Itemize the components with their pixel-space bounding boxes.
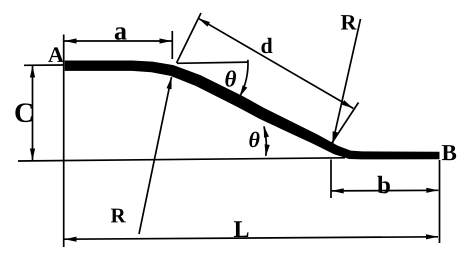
svg-text:C: C	[14, 98, 34, 129]
arrowhead: d upper-left	[198, 18, 210, 26]
extension line: right end of d (perpendicular tick)	[332, 103, 359, 144]
svg-text:A: A	[48, 42, 64, 67]
svg-text:L: L	[233, 217, 249, 243]
extension line: right vertical at curve end B	[439, 160, 441, 243]
svg-text:a: a	[114, 16, 127, 45]
arrowhead: R upper leader tip	[333, 131, 338, 143]
arrowhead: C top	[30, 66, 35, 78]
angle reference line for upper theta	[177, 62, 248, 63]
arrowhead: d lower-right	[342, 100, 354, 108]
dimension line b (horizontal)	[332, 189, 439, 192]
leader line R (lower bend radius)	[139, 77, 172, 234]
dimension line C (vertical)	[32, 66, 34, 161]
extension line: left end of b	[330, 160, 332, 199]
svg-text:R: R	[341, 10, 358, 35]
arrowhead: lower theta arc bottom	[265, 144, 270, 156]
arrowhead: L left	[65, 237, 77, 242]
svg-text:b: b	[377, 172, 391, 199]
arrowhead: C bottom	[30, 149, 35, 161]
arrowhead: a right	[160, 38, 172, 43]
arrowhead: lower theta arc top	[264, 126, 269, 138]
arrowhead: R lower leader tip	[167, 77, 172, 89]
svg-text:d: d	[261, 33, 273, 58]
dimension line L (horizontal)	[65, 237, 439, 239]
arc for lower theta	[264, 127, 266, 156]
dimension line d (diagonal)	[198, 18, 353, 108]
leader line R (upper bend radius)	[333, 19, 361, 144]
svg-text:B: B	[441, 140, 456, 165]
extension line: left end of d (perpendicular tick)	[177, 13, 202, 63]
svg-text:R: R	[110, 203, 126, 227]
arrowhead: upper theta arc	[240, 85, 248, 97]
arrowhead: b right	[426, 188, 438, 193]
thick S-bend bar from A to B	[65, 61, 440, 160]
svg-text:θ: θ	[225, 66, 237, 91]
extension line: long left vertical at curve start	[63, 35, 65, 248]
arrowhead: b left	[332, 188, 344, 193]
arc for upper theta	[240, 60, 248, 96]
svg-text:θ: θ	[248, 127, 260, 152]
extension line: right end of a	[171, 31, 173, 59]
extension line: baseline from C bottom to lower tangent	[18, 158, 345, 161]
dimension line a (horizontal)	[65, 40, 172, 42]
arrowhead: L right	[426, 234, 438, 239]
extension line: top-left horizontal at A level	[24, 64, 63, 66]
arrowhead: a left	[65, 38, 77, 43]
